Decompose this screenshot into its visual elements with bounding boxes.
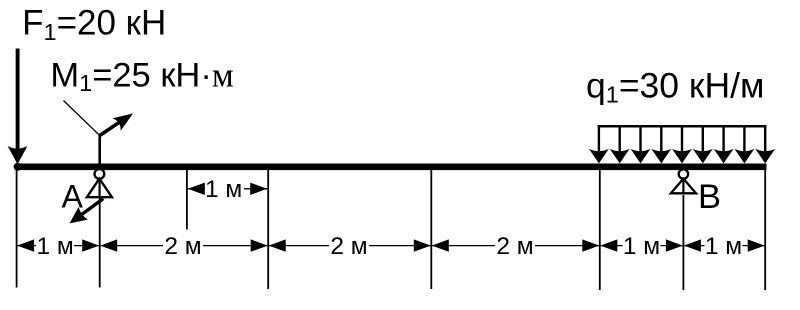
beam — [15, 164, 767, 171]
tick x=765.2 — [764, 170, 766, 290]
tick x=431.3 — [430, 170, 432, 289]
dimension arrowheads — [17, 239, 765, 251]
svg-text:B: B — [698, 178, 721, 216]
svg-text:q1=30 кН/м: q1=30 кН/м — [586, 66, 764, 108]
moment M1 leader line — [64, 101, 100, 136]
force F1 arrow shaft — [16, 49, 20, 151]
beam left end dot — [14, 163, 22, 171]
svg-text:1 м: 1 м — [623, 233, 660, 260]
dimension text masks — [36, 237, 743, 255]
svg-text:1 м: 1 м — [205, 176, 242, 203]
distributed load q1 top line — [598, 125, 767, 128]
load arrowheads — [589, 149, 775, 164]
support A triangle — [87, 179, 112, 198]
tick x=16.6 — [16, 170, 18, 288]
reaction arrow at A — [82, 199, 104, 215]
svg-text:2 м: 2 м — [330, 233, 367, 260]
moment M1 stem — [98, 135, 101, 165]
tick x=268.2 — [267, 170, 269, 289]
force F1 arrowhead — [8, 146, 28, 164]
tick x=599.8 — [599, 170, 601, 290]
support A hinge circle — [95, 169, 105, 179]
tick x=186.9 (short) — [186, 170, 188, 230]
svg-text:2 м: 2 м — [496, 233, 533, 260]
svg-text:2 м: 2 м — [164, 233, 201, 260]
moment M1 arrow — [100, 122, 120, 135]
svg-text:F1=20 кН: F1=20 кН — [22, 4, 166, 45]
svg-text:1 м: 1 м — [36, 233, 73, 260]
support A stem — [98, 170, 100, 197]
support B hinge circle — [679, 169, 688, 178]
tick x=683.4 (below support B) — [682, 195, 684, 290]
svg-text:1 м: 1 м — [705, 233, 742, 260]
tick x=99.7 (below support A) — [99, 197, 101, 288]
support B stem — [682, 170, 684, 193]
svg-text:A: A — [62, 178, 84, 214]
upper dimension line 1m — [187, 188, 267, 190]
bottom dimension lines — [17, 245, 766, 247]
support B triangle — [671, 179, 696, 194]
load shafts — [599, 125, 765, 151]
svg-text:M1=25 кН·м: M1=25 кН·м — [50, 56, 233, 96]
